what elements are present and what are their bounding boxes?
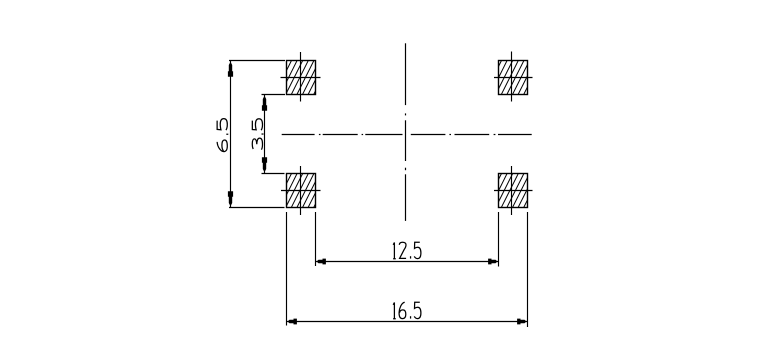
dimension 16.5 line bbox=[287, 321, 528, 323]
dimension 3.5 arrow up bbox=[262, 96, 267, 111]
dimension 12.5 arrow left bbox=[317, 259, 326, 265]
pad 2 centerline cross bbox=[494, 52, 533, 102]
dimension 3.5 line bbox=[264, 95, 266, 174]
pad 4 hatch (bottom-right) bbox=[478, 171, 542, 210]
dimension 12.5 extension line right bbox=[498, 212, 500, 267]
pad 1 centerline cross bbox=[281, 52, 321, 102]
pad 2 hatch (top-right) bbox=[478, 58, 542, 97]
dimension 6.5 arrow down bbox=[228, 191, 233, 206]
pad 4 outline (bottom-right) bbox=[499, 174, 528, 208]
dimension 3.5 extension line bottom bbox=[262, 173, 285, 175]
dimension 3.5 text (rotated) bbox=[252, 119, 263, 150]
dimension 3.5 arrow down bbox=[262, 157, 267, 172]
dimension 16.5 arrow right bbox=[517, 319, 526, 325]
dimension 16.5 extension line left bbox=[286, 212, 288, 326]
dimension 6.5 arrow up bbox=[228, 62, 233, 77]
pad 1 outline (top-left) bbox=[287, 61, 316, 95]
dimension 6.5 extension line bottom bbox=[229, 207, 285, 209]
horizontal main centerline (dash-dot) bbox=[282, 134, 532, 136]
pad 3 centerline cross bbox=[281, 166, 321, 215]
pad 1 hatch (top-left) bbox=[268, 58, 332, 97]
dimension 12.5 extension line left bbox=[315, 212, 317, 266]
dimension 16.5 text bbox=[393, 302, 421, 319]
pad 2 outline (top-right) bbox=[499, 61, 528, 95]
vertical main centerline (dash-dot) bbox=[405, 43, 407, 221]
dimension 6.5 extension line top bbox=[229, 60, 285, 62]
dimension 6.5 line bbox=[230, 61, 232, 208]
dimension 16.5 extension line right bbox=[527, 212, 529, 327]
pad 3 hatch (bottom-left) bbox=[268, 171, 332, 210]
pad 3 outline (bottom-left) bbox=[287, 174, 316, 208]
pad 4 centerline cross bbox=[494, 166, 533, 215]
dimension 16.5 arrow left bbox=[288, 319, 297, 325]
dimension 12.5 arrow right bbox=[488, 259, 497, 265]
dimension 3.5 extension line top bbox=[262, 94, 286, 96]
dimension 12.5 line bbox=[316, 261, 499, 263]
dimension 12.5 text bbox=[393, 242, 421, 259]
dimension 6.5 text (rotated) bbox=[217, 119, 228, 152]
